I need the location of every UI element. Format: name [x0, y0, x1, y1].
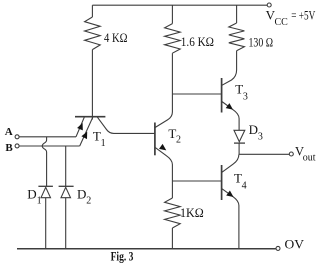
svg-text:D: D [249, 122, 258, 137]
svg-text:130 Ω: 130 Ω [249, 35, 274, 49]
label B [5, 142, 13, 154]
transistor T2 [155, 112, 173, 198]
svg-text:B: B [5, 142, 13, 154]
label D2 [77, 186, 91, 206]
label 1KΩ [180, 206, 204, 220]
wire ground rail 0V [17, 248, 276, 250]
label A [5, 126, 13, 138]
label T3 [235, 82, 248, 103]
label T1 [93, 129, 106, 149]
svg-text:OV: OV [285, 237, 305, 252]
label Fig 3 [111, 249, 134, 263]
resistor R3 130 leads and body [229, 5, 245, 70]
wire B to D2 [65, 146, 67, 186]
label T4 [234, 171, 247, 192]
svg-text:1.6 KΩ: 1.6 KΩ [181, 35, 214, 49]
wire output Vout [239, 153, 289, 155]
terminal Vout [289, 152, 293, 156]
svg-text:2: 2 [86, 196, 91, 207]
resistor R2 1.6K leads and body [165, 5, 181, 112]
diode D3 [234, 130, 245, 154]
label D1 [27, 186, 41, 206]
wire VCC power rail [92, 4, 267, 6]
terminal 0V [276, 246, 280, 250]
svg-text:out: out [303, 153, 316, 164]
label D3 [249, 122, 263, 143]
input terminal A [15, 135, 19, 139]
svg-text:CC: CC [275, 17, 289, 28]
svg-text:4: 4 [242, 181, 247, 192]
transistor T3 [222, 70, 240, 130]
label Vout [295, 144, 316, 163]
terminal VCC [267, 3, 271, 7]
svg-text:Fig. 3: Fig. 3 [111, 249, 134, 263]
wire T2 collector to T3 base [172, 93, 221, 95]
wire A to D1 with hop over B [42, 137, 46, 187]
svg-text:1: 1 [37, 196, 42, 207]
svg-text:1KΩ: 1KΩ [180, 206, 204, 220]
svg-text:3: 3 [243, 92, 248, 103]
input terminal B [15, 144, 19, 148]
label T2 [168, 126, 181, 145]
wire input B [19, 145, 79, 147]
svg-text:A: A [5, 126, 13, 138]
svg-text:1: 1 [101, 138, 106, 149]
label 1.6 KΩ [181, 35, 214, 49]
resistor R1 4K leads and body [85, 5, 101, 116]
diode D1 [38, 186, 53, 249]
label OV [285, 237, 305, 252]
svg-text:D: D [77, 186, 86, 201]
label 4 KΩ [104, 31, 128, 45]
transistor T4 [222, 154, 239, 249]
label VCC = +5V [266, 7, 316, 28]
svg-text:3: 3 [258, 132, 263, 143]
svg-text:2: 2 [176, 135, 181, 146]
label 130 Ω [249, 35, 274, 49]
diode D2 [59, 186, 74, 249]
wire input A [19, 136, 76, 138]
wire T2 emitter to T4 base [172, 180, 221, 182]
svg-text:4 KΩ: 4 KΩ [104, 31, 128, 45]
svg-text:= +5V: = +5V [291, 8, 315, 22]
transistor T1 [75, 117, 155, 146]
resistor R4 1K body and lead [165, 198, 181, 249]
svg-text:D: D [27, 186, 36, 201]
